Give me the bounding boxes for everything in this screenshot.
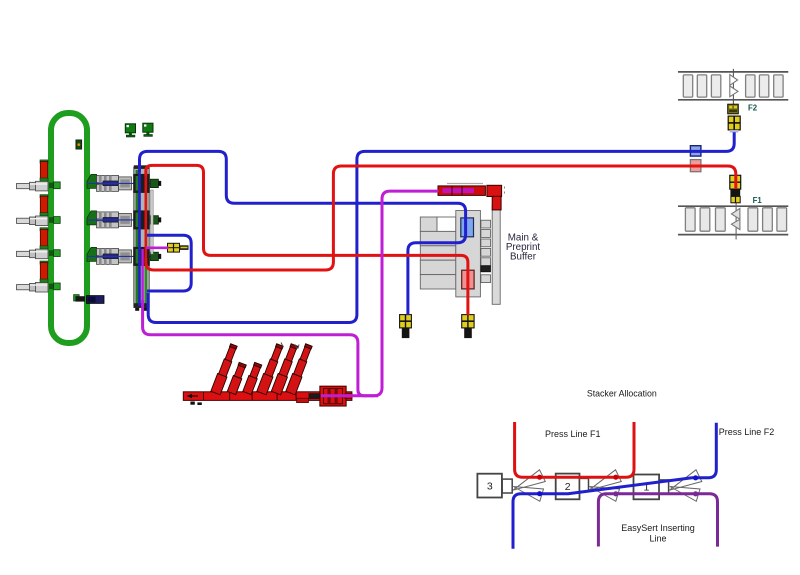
top conveyor F2 xyxy=(678,69,788,105)
svg-text:Press Line F2: Press Line F2 xyxy=(719,427,775,437)
press unit 3 xyxy=(87,247,161,264)
press unit 2 xyxy=(87,211,161,228)
EasySert Inserting Line label xyxy=(621,523,695,544)
wire: magenta inserter horizontal xyxy=(321,394,378,397)
svg-text:EasySert Inserting: EasySert Inserting xyxy=(621,523,695,533)
wire: red folder internal vertical xyxy=(145,170,148,264)
inserter hopper 4 (tall) xyxy=(257,343,285,395)
buffer right small boxes xyxy=(481,220,491,282)
inserter hopper 5 (tall) xyxy=(271,343,299,395)
svg-text:Stacker Allocation: Stacker Allocation xyxy=(587,388,657,398)
press conveyor loop (green oval track) xyxy=(51,113,87,343)
svg-text:Line: Line xyxy=(649,533,666,543)
loop bottom sensor (green tick) xyxy=(74,295,80,301)
reel stand 4 xyxy=(17,261,61,292)
wire: magenta folder internal vertical xyxy=(141,249,143,330)
buffer infeed red bar xyxy=(438,184,505,210)
gripper dot purple at box1 wedge xyxy=(693,491,698,496)
svg-text:F2: F2 xyxy=(748,104,758,113)
gripper dot blue at box3 wedge xyxy=(537,491,542,496)
svg-text:3: 3 xyxy=(487,480,493,492)
gripper dot red at box2 wedge xyxy=(613,475,618,480)
folder tower xyxy=(133,165,150,310)
wire: red press to buffer xyxy=(146,165,468,315)
monitor icon 2 xyxy=(143,123,153,136)
svg-text:F1: F1 xyxy=(753,196,763,205)
inserter hopper top marks xyxy=(281,343,299,349)
wire: blue folder internal vertical xyxy=(138,168,141,306)
buffer text xyxy=(506,233,541,263)
Main & Preprint Buffer : left row stack xyxy=(420,217,456,289)
press unit 1 xyxy=(87,174,161,191)
reel stand 2 xyxy=(17,195,61,226)
gripper dot blue at box1 wedge xyxy=(693,475,698,480)
wire: magenta folder to inserter xyxy=(143,300,370,396)
reel stand 1 xyxy=(17,160,61,191)
inserter end unit (stitcher) xyxy=(320,386,352,406)
control box on loop xyxy=(76,140,82,149)
F1 stacker device (yellow/black) xyxy=(730,175,741,203)
stacker box 2 xyxy=(556,474,589,500)
monitor icon 1 xyxy=(125,124,135,137)
diverter wedge pair at box 2 xyxy=(589,470,621,502)
gripper dot red at box3 wedge xyxy=(537,475,542,480)
wire: blue press to F2 line xyxy=(148,132,734,322)
wire: red press to F1 line xyxy=(146,166,736,270)
bottom conveyor F1 xyxy=(678,203,788,240)
inserter hopper 3 (short) xyxy=(243,362,263,395)
svg-text:Press Line F1: Press Line F1 xyxy=(545,429,601,439)
blue transfer square on F2 line xyxy=(690,146,701,156)
inserter hopper 6 (tall) xyxy=(286,343,314,395)
inserter hopper 2 (short) xyxy=(227,362,247,395)
buffer blue cell xyxy=(461,218,474,237)
buffer outfeed device left (yellow/black) xyxy=(400,315,412,339)
folder right-side rail xyxy=(151,190,154,254)
roll changer (small yellow device beside folder) xyxy=(168,243,189,252)
buffer red cell xyxy=(462,270,474,289)
wire: press line F1 red xyxy=(515,422,634,477)
wire: magenta folder stub to roll changer xyxy=(146,247,169,250)
diverter wedge pair at box 1 xyxy=(670,470,702,502)
wire: press line F2 blue xyxy=(513,423,716,549)
svg-text:Buffer: Buffer xyxy=(510,252,537,263)
diverter wedge pair at box 3 xyxy=(513,470,545,502)
inserter main bar xyxy=(183,392,352,405)
svg-text:2: 2 xyxy=(565,481,571,493)
buffer outfeed device right (yellow/black) xyxy=(462,315,474,339)
reel stand 3 xyxy=(17,228,61,259)
stacker box 1 xyxy=(634,475,669,500)
gripper dot purple at box2 wedge xyxy=(613,491,618,496)
inserter hopper 1 (tall) xyxy=(211,343,239,395)
wire: magenta inserter to buffer infeed bar xyxy=(370,191,439,396)
wire: blue press to buffer xyxy=(140,151,466,315)
wire: EasySert inserting line purple xyxy=(598,494,717,547)
buffer right tall rail xyxy=(492,205,500,304)
stacker box 3 xyxy=(477,474,512,498)
red transfer square on F1 line xyxy=(690,160,701,172)
loop bottom drive unit (black nub + navy block) xyxy=(76,296,105,304)
buffer center column xyxy=(456,211,481,297)
wire: blue folder bypass loop xyxy=(147,235,191,291)
F2 stacker device (yellow/black) xyxy=(728,104,741,132)
